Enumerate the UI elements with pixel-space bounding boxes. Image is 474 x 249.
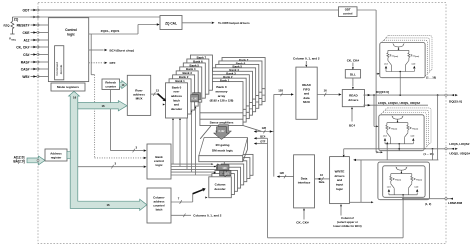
svg-text:ZQCL, ZQCS: ZQCL, ZQCS — [101, 29, 120, 33]
svg-text:TT(nom): TT(nom) — [395, 179, 401, 181]
svg-text:BC4 (Burst chop): BC4 (Burst chop) — [110, 48, 135, 52]
svg-text:Bank 0: Bank 0 — [216, 85, 226, 89]
svg-text:LDQS, LDQS#, UDQS, UDQS#: LDQS, LDQS#, UDQS, UDQS# — [378, 101, 421, 105]
svg-text:Control: Control — [65, 28, 77, 32]
svg-text:TT(nom): TT(nom) — [413, 56, 419, 58]
svg-text:RAS#: RAS# — [21, 60, 30, 64]
svg-text:A12: A12 — [23, 38, 29, 42]
svg-text:MUX: MUX — [136, 96, 144, 100]
svg-text:decoder: decoder — [214, 187, 226, 191]
svg-text:I/O gating: I/O gating — [216, 143, 230, 147]
svg-text:128: 128 — [262, 126, 267, 130]
svg-text:SSQ: SSQ — [11, 40, 16, 42]
svg-text:lower nibble for BC4): lower nibble for BC4) — [333, 224, 361, 228]
svg-text:drivers: drivers — [348, 98, 358, 102]
svg-text:logic: logic — [155, 163, 162, 167]
svg-text:WE#: WE# — [22, 75, 29, 79]
svg-text:ZQ: ZQ — [14, 18, 19, 22]
svg-text:DM mask logic: DM mask logic — [212, 149, 233, 153]
svg-text:Column 0, 1, and 2: Column 0, 1, and 2 — [293, 56, 320, 60]
svg-text:(1 ... 16): (1 ... 16) — [426, 75, 436, 79]
svg-text:DQ[15:0]: DQ[15:0] — [376, 90, 389, 94]
svg-text:TT(nom): TT(nom) — [416, 179, 422, 181]
svg-text:Data: Data — [319, 180, 325, 184]
svg-text:counter: counter — [105, 84, 116, 88]
svg-text:CS#: CS# — [23, 53, 30, 57]
svg-text:LDQS, LDQS#: LDQS, LDQS# — [449, 142, 469, 146]
svg-text:BC4: BC4 — [260, 134, 266, 138]
svg-text:decoder: decoder — [171, 107, 183, 111]
svg-text:8,192: 8,192 — [219, 130, 226, 133]
svg-text:16: 16 — [106, 203, 110, 207]
svg-text:memory: memory — [215, 90, 227, 94]
svg-text:(8192 x 128 x 128): (8192 x 128 x 128) — [210, 99, 234, 103]
svg-text:BC4: BC4 — [349, 123, 355, 127]
svg-text:array: array — [218, 94, 226, 98]
svg-text:128: 128 — [222, 167, 227, 170]
svg-text:128: 128 — [278, 89, 283, 93]
svg-text:latch: latch — [156, 207, 163, 211]
svg-text:Sense amplifiers: Sense amplifiers — [210, 121, 234, 125]
svg-text:CK, CK#: CK, CK# — [296, 220, 309, 224]
svg-text:Column: Column — [215, 183, 226, 187]
svg-text:128: 128 — [280, 171, 285, 175]
svg-text:RESET#: RESET# — [17, 23, 30, 27]
svg-text:OTF: OTF — [260, 140, 266, 144]
svg-text:TT(nom): TT(nom) — [392, 56, 398, 58]
svg-text:BA[2:0]: BA[2:0] — [13, 160, 24, 164]
svg-text:TT(nom): TT(nom) — [412, 128, 418, 130]
svg-text:control: control — [343, 12, 353, 16]
svg-text:LDM/UDM: LDM/UDM — [448, 201, 463, 205]
svg-text:16: 16 — [73, 95, 77, 99]
svg-text:MUX: MUX — [303, 100, 310, 104]
svg-text:logic: logic — [336, 187, 343, 191]
svg-text:RZQ: RZQ — [3, 24, 10, 28]
svg-text:ZQ CAL: ZQ CAL — [165, 22, 177, 26]
svg-text:UDQS, UDQS#: UDQS, UDQS# — [449, 152, 470, 156]
svg-text:(1, 2): (1, 2) — [425, 202, 431, 206]
svg-text:16: 16 — [101, 104, 105, 108]
svg-text:8,192: 8,192 — [192, 99, 198, 101]
svg-text:CK, CK#: CK, CK# — [16, 45, 29, 49]
svg-text:DQ[15:0]: DQ[15:0] — [449, 100, 462, 104]
svg-text:CKE: CKE — [23, 31, 31, 35]
svg-text:register: register — [51, 156, 62, 160]
svg-text:CK, CK#: CK, CK# — [347, 58, 360, 62]
svg-text:ODT: ODT — [23, 8, 30, 12]
svg-text:interface: interface — [298, 181, 311, 185]
svg-text:16: 16 — [324, 88, 328, 92]
svg-text:128: 128 — [224, 173, 229, 176]
svg-text:OTF: OTF — [110, 61, 116, 65]
svg-text:decode: decode — [59, 64, 63, 74]
svg-text:logic: logic — [67, 32, 75, 36]
svg-text:CAS#: CAS# — [21, 67, 30, 71]
svg-text:13: 13 — [156, 89, 160, 93]
svg-text:TT(nom): TT(nom) — [391, 128, 397, 130]
svg-text:To ODT/output drivers: To ODT/output drivers — [218, 21, 250, 25]
svg-text:Mode registers: Mode registers — [57, 85, 79, 89]
svg-text:DLL: DLL — [350, 72, 356, 76]
svg-text:Columns 0, 1, and 2: Columns 0, 1, and 2 — [193, 214, 222, 218]
